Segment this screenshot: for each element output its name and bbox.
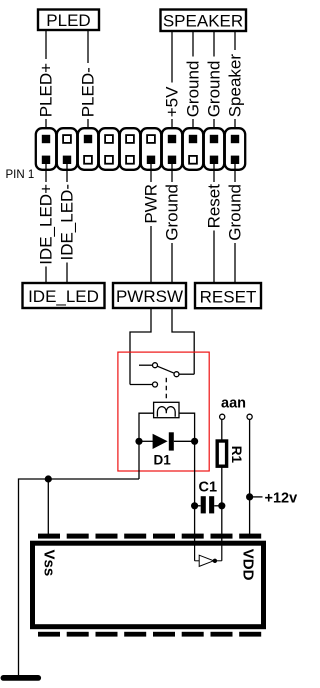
- net label Ground: [163, 184, 182, 241]
- wire SPEAKER box to pin 10 top: [234, 31, 236, 139]
- IC bottom pins: [38, 632, 261, 637]
- pin 6 top (unused): [147, 135, 155, 143]
- connector label box PLED: [38, 10, 99, 31]
- pin 8 top (used): [189, 135, 197, 143]
- connector shell pin 1: [36, 128, 56, 170]
- net label Ground: [205, 61, 224, 118]
- connector shell pin 9: [204, 128, 224, 170]
- IC top pin 4: [124, 534, 146, 539]
- pin 4 bottom (unused): [105, 156, 113, 164]
- relay actuator dashed link: [165, 378, 167, 402]
- relay coil: [154, 402, 179, 417]
- connector shell pin 2: [57, 128, 77, 170]
- net label Ground: [226, 184, 245, 241]
- IC top pin 5: [153, 534, 175, 539]
- svg-text:IDE_LED+: IDE_LED+: [37, 184, 56, 265]
- pin 10 top (used): [231, 135, 239, 143]
- svg-text:PLED: PLED: [46, 11, 90, 30]
- IC bottom pin 6: [182, 632, 204, 637]
- relay switch contacts: [130, 363, 194, 387]
- node +12v junction: [246, 493, 253, 500]
- pin 7 bottom (used): [168, 156, 176, 164]
- connector shell pin 4: [99, 128, 119, 170]
- net label Reset: [205, 184, 224, 229]
- svg-text:+5V: +5V: [163, 86, 182, 117]
- svg-text:Ground: Ground: [163, 184, 182, 241]
- connector label box PWRSW: [113, 283, 186, 308]
- pin 1 top (used): [42, 135, 50, 143]
- svg-text:PLED-: PLED-: [79, 67, 98, 117]
- relay outline (red box): [118, 352, 209, 471]
- svg-text:IDE_LED: IDE_LED: [28, 287, 99, 306]
- buffer gate inside IC: [195, 542, 222, 566]
- net label PLED-: [79, 67, 98, 117]
- terminal circle aan right: [247, 414, 252, 419]
- wire pin 9 bottom to RESET box: [213, 160, 215, 282]
- wire coil left terminal: [139, 413, 154, 441]
- resistor R1: [217, 441, 244, 466]
- net label PLED+: [37, 63, 56, 117]
- pin 7 top (used): [168, 135, 176, 143]
- pin 1 bottom (used): [42, 156, 50, 164]
- IC top pin 7: [211, 534, 233, 539]
- svg-text:Ground: Ground: [205, 61, 224, 118]
- wire coil right terminal: [179, 413, 195, 441]
- net label +5V: [163, 86, 182, 117]
- IC body: [33, 543, 264, 627]
- capacitor C1: [195, 480, 222, 514]
- svg-text:Ground: Ground: [184, 61, 203, 118]
- IC bottom pin 2: [67, 632, 89, 637]
- pin 2 bottom (used): [63, 156, 71, 164]
- net label Speaker: [226, 54, 245, 118]
- connector label box IDE_LED: [23, 283, 105, 308]
- svg-text:C1: C1: [199, 480, 218, 496]
- wire pin 6 bottom to PWRSW box: [150, 160, 152, 282]
- pin 5 top (unused): [126, 135, 134, 143]
- node C1 right junction: [218, 502, 225, 509]
- connector shell pin 10: [225, 128, 245, 170]
- pin 3 top (used): [84, 135, 92, 143]
- IC bottom pin 4: [124, 632, 146, 637]
- pin 4 top (unused): [105, 135, 113, 143]
- svg-text:Speaker: Speaker: [226, 54, 245, 118]
- svg-text:PWR: PWR: [142, 184, 161, 224]
- wire SPEAKER box to pin 9 top: [213, 31, 215, 139]
- wire +12v stub: [250, 496, 263, 498]
- IC top pins: [38, 534, 261, 539]
- pin 9 top (used): [210, 135, 218, 143]
- diode D1: [139, 432, 195, 467]
- pin 3 bottom (unused): [84, 156, 92, 164]
- wire PLED box to pin 3 top: [87, 30, 89, 139]
- wire pin 7 bottom to PWRSW box: [171, 160, 173, 282]
- svg-text:IDE_LED-: IDE_LED-: [58, 184, 77, 261]
- net label IDE_LED-: [58, 184, 77, 261]
- net label IDE_LED+: [37, 184, 56, 265]
- pin 10 bottom (used): [231, 156, 239, 164]
- wire SPEAKER box to pin 8 top: [192, 31, 194, 139]
- wire aan left to R1: [221, 420, 223, 441]
- node diode anode junction: [135, 438, 142, 445]
- connector shell pin 7: [162, 128, 182, 170]
- connector label box RESET: [195, 283, 261, 308]
- wire pin 1 bottom to IDE_LED box: [45, 160, 47, 282]
- IC top pin 6: [182, 534, 204, 539]
- IC top pin 3: [96, 534, 118, 539]
- connector shell pin 3: [78, 128, 98, 170]
- pin header connectors (10 two-pin shells): [36, 128, 245, 170]
- svg-text:R1: R1: [229, 446, 244, 464]
- connector label box SPEAKER: [161, 10, 247, 32]
- wire PLED box to pin 1 top: [45, 30, 47, 139]
- svg-text:PWRSW: PWRSW: [116, 287, 183, 306]
- IC bottom pin 1: [38, 632, 60, 637]
- node diode cathode junction: [191, 438, 198, 445]
- connector shell pin 6: [141, 128, 161, 170]
- IC bottom pin 3: [96, 632, 118, 637]
- wire junction to IC pin 1 (Vss): [47, 479, 49, 535]
- svg-text:RESET: RESET: [200, 288, 257, 307]
- node Vss branch junction: [45, 475, 52, 482]
- pin 8 bottom (unused): [189, 156, 197, 164]
- wire R1 bottom to C1 right: [221, 467, 223, 561]
- svg-text:D1: D1: [154, 453, 172, 468]
- IC bottom pin 7: [211, 632, 233, 637]
- wire SPEAKER box to pin 7 top: [171, 31, 173, 139]
- IC top pin 1: [38, 534, 60, 539]
- wire pin 2 bottom to IDE_LED box: [66, 160, 68, 282]
- pin 2 top (unused): [63, 135, 71, 143]
- connector shell pin 8: [183, 128, 203, 170]
- node C1 left junction: [191, 502, 198, 509]
- svg-text:Ground: Ground: [226, 184, 245, 241]
- ground bar: [1, 675, 42, 681]
- wire ground rail horizontal: [19, 479, 140, 676]
- wire PWRSW left lead to relay switch: [130, 308, 151, 385]
- connector shell pin 5: [120, 128, 140, 170]
- IC bottom pin 8: [239, 632, 261, 637]
- svg-text:PIN 1: PIN 1: [6, 169, 35, 181]
- IC bottom pin 5: [153, 632, 175, 637]
- terminal circle aan left: [220, 414, 225, 419]
- pin 9 bottom (used): [210, 156, 218, 164]
- wire diode cathode down to C1 left: [194, 441, 196, 561]
- svg-text:VDD: VDD: [240, 549, 257, 581]
- svg-text:PLED+: PLED+: [37, 63, 56, 117]
- IC top pin 8: [239, 534, 261, 539]
- IC top pin 2: [67, 534, 89, 539]
- svg-text:+12v: +12v: [265, 490, 298, 506]
- svg-text:Reset: Reset: [205, 184, 224, 229]
- svg-text:SPEAKER: SPEAKER: [163, 12, 243, 31]
- wire diode anode down to ground rail: [138, 441, 140, 479]
- svg-text:Vss: Vss: [41, 550, 58, 577]
- pin 5 bottom (unused): [126, 156, 134, 164]
- wire pin 10 bottom to RESET box: [234, 160, 236, 282]
- svg-text:aan: aan: [221, 396, 246, 412]
- wire PWRSW right lead to relay switch: [172, 308, 194, 374]
- net label PWR: [142, 184, 161, 224]
- pin 6 bottom (used): [147, 156, 155, 164]
- wire aan right (+12v) down to IC Vdd pin: [249, 420, 251, 536]
- net label Ground: [184, 61, 203, 118]
